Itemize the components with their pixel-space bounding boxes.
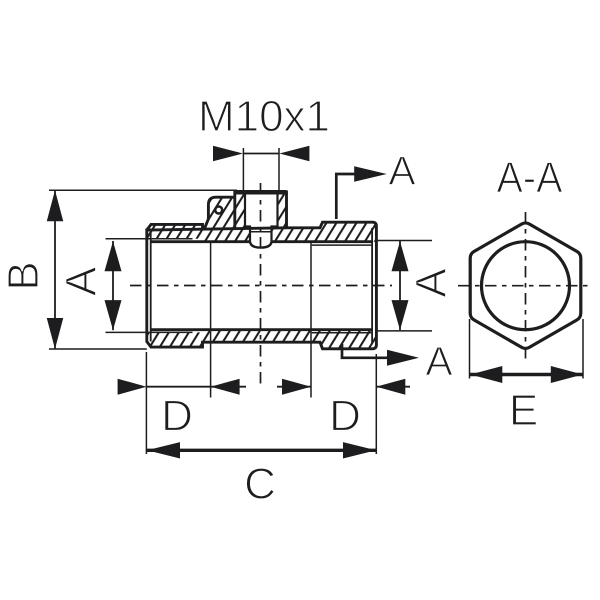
svg-text:E: E: [509, 386, 538, 435]
svg-text:D: D: [161, 392, 193, 441]
svg-text:A: A: [407, 268, 456, 298]
svg-text:A: A: [57, 266, 106, 296]
svg-text:A: A: [388, 148, 416, 194]
svg-text:C: C: [244, 460, 276, 509]
svg-text:M10x1: M10x1: [198, 92, 330, 141]
svg-text:B: B: [0, 261, 48, 290]
svg-text:A: A: [425, 338, 453, 384]
svg-text:A-A: A-A: [497, 154, 564, 203]
svg-text:D: D: [329, 392, 361, 441]
